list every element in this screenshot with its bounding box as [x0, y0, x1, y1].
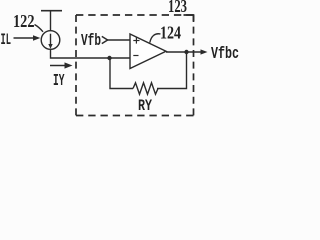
svg-text:IL: IL: [1, 31, 12, 49]
svg-text:Vfbc: Vfbc: [211, 45, 239, 64]
svg-text:IY: IY: [53, 71, 65, 90]
svg-text:122: 122: [13, 11, 35, 31]
svg-text:124: 124: [160, 23, 181, 43]
svg-text:123: 123: [168, 0, 187, 16]
svg-text:RY: RY: [138, 97, 153, 115]
svg-text:Vfb: Vfb: [81, 31, 101, 50]
